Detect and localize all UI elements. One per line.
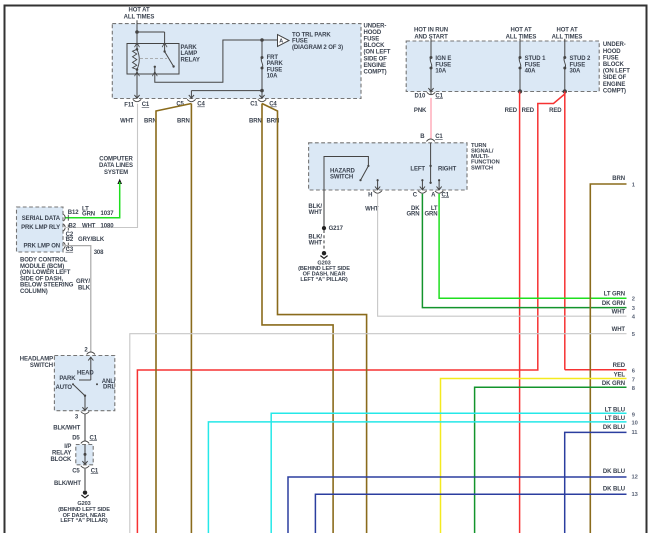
- svg-text:DK BLU: DK BLU: [603, 425, 625, 431]
- svg-text:BLK: BLK: [78, 285, 91, 291]
- wire BLK/WHT hazard to G217: [323, 190, 325, 228]
- ground G203 (headlamp circuit): [81, 490, 88, 497]
- svg-text:SWITCH: SWITCH: [330, 175, 353, 181]
- connector terminal 3: [75, 412, 89, 421]
- label RED (stud1 wire): [505, 108, 518, 114]
- svg-text:2: 2: [632, 297, 635, 303]
- connector C5 C1 (relay block out): [72, 466, 99, 475]
- svg-text:HEADLAMP: HEADLAMP: [20, 357, 53, 363]
- svg-text:SIDE OF: SIDE OF: [603, 75, 627, 81]
- svg-text:C3: C3: [66, 247, 74, 253]
- connector A C1: [431, 191, 450, 199]
- connector into relay block: [81, 441, 89, 450]
- label HEAD: [77, 371, 94, 377]
- label C2: [66, 232, 74, 238]
- svg-text:B12: B12: [68, 210, 79, 216]
- label LEFT: [410, 167, 425, 173]
- label G203 (headlamp): [58, 501, 110, 524]
- svg-text:PARK: PARK: [267, 61, 284, 67]
- hazard switch: [324, 157, 370, 191]
- label RED (stud2 right wire): [549, 108, 562, 114]
- svg-text:ALL TIMES: ALL TIMES: [124, 14, 155, 20]
- wire BRN C1 left branch stepped to bottom: [262, 104, 333, 533]
- underhood fuse block (right) box: [406, 41, 599, 92]
- svg-text:GRN: GRN: [406, 211, 419, 217]
- svg-text:DK BLU: DK BLU: [603, 487, 625, 493]
- park lamp relay box: [127, 44, 179, 75]
- label AUTO: [56, 385, 73, 391]
- svg-text:SERIAL DATA: SERIAL DATA: [22, 216, 61, 222]
- svg-text:ALL TIMES: ALL TIMES: [552, 34, 583, 40]
- relay switch: [140, 45, 175, 74]
- svg-text:STUD 2: STUD 2: [570, 56, 592, 62]
- wire GRY/BLK BCM to headlamp switch: [65, 246, 91, 352]
- svg-text:GRN: GRN: [424, 211, 437, 217]
- wire through relay block: [82, 445, 87, 465]
- label BRN wire 4: [267, 118, 280, 124]
- wire DK BLU stub 11 from bottom: [565, 432, 627, 533]
- label BODY CONTROL MODULE (BCM): [20, 258, 74, 296]
- svg-text:HOOD: HOOD: [603, 49, 621, 55]
- svg-text:FUSE: FUSE: [570, 62, 586, 68]
- label 308: [94, 250, 104, 256]
- label GRY/BLK (vertical wire): [76, 279, 91, 291]
- relay coil: [133, 45, 140, 74]
- label LT BLU stub 10: [605, 416, 638, 427]
- svg-text:FUSE: FUSE: [525, 62, 541, 68]
- svg-text:WHT: WHT: [120, 118, 134, 124]
- svg-text:BLK/: BLK/: [308, 234, 322, 240]
- svg-text:BODY CONTROL: BODY CONTROL: [20, 258, 68, 264]
- svg-text:LAMP: LAMP: [181, 51, 198, 57]
- svg-text:WHT: WHT: [365, 206, 379, 212]
- svg-text:FUSE: FUSE: [435, 62, 451, 68]
- connector H: [368, 191, 382, 199]
- I/P relay block box: [76, 445, 93, 465]
- label HOT AT ALL TIMES (stud 1): [506, 28, 537, 41]
- wire WHT stub 5 from bottom: [130, 334, 627, 533]
- svg-text:C1: C1: [91, 468, 99, 474]
- connector B C1 (turn signal top): [420, 134, 443, 147]
- wire RED stud2 to stub 6: [565, 92, 627, 370]
- label ANL/ DRL: [102, 379, 116, 391]
- svg-text:BLOCK: BLOCK: [50, 457, 72, 463]
- svg-text:HEAD: HEAD: [77, 371, 94, 377]
- svg-text:IGN E: IGN E: [435, 56, 451, 62]
- wire DK BLU stub 12 from bottom: [288, 477, 627, 533]
- frt park fuse 10A: [260, 40, 264, 92]
- label D5 C1: [72, 435, 98, 441]
- svg-text:BLK/WHT: BLK/WHT: [54, 481, 81, 487]
- svg-text:D10: D10: [414, 93, 425, 99]
- svg-text:DK GRN: DK GRN: [602, 381, 625, 387]
- svg-text:FUSE: FUSE: [364, 37, 380, 43]
- turn signal switch box: [309, 143, 467, 190]
- label HOT IN RUN AND START: [414, 28, 448, 41]
- label STUD 1 FUSE 40A: [525, 56, 547, 75]
- svg-text:C1: C1: [142, 102, 150, 108]
- svg-text:HOT AT: HOT AT: [510, 28, 531, 34]
- svg-text:ENGINE: ENGINE: [603, 82, 626, 88]
- headlamp switch HEAD contact: [79, 357, 93, 380]
- svg-text:C1: C1: [435, 134, 443, 140]
- svg-text:SIDE OF: SIDE OF: [364, 56, 388, 62]
- svg-text:RED: RED: [522, 108, 535, 114]
- svg-text:WHT: WHT: [612, 309, 626, 315]
- svg-text:GRY/BLK: GRY/BLK: [78, 237, 105, 243]
- svg-text:DK BLU: DK BLU: [603, 469, 625, 475]
- label UNDER-HOOD FUSE BLOCK (right): [603, 42, 630, 94]
- label BLK/WHT (hazard ground wire): [308, 204, 322, 216]
- svg-text:LT BLU: LT BLU: [605, 416, 625, 422]
- svg-text:WHT: WHT: [309, 210, 323, 216]
- svg-text:13: 13: [632, 492, 639, 498]
- label BRN wire 2: [177, 118, 190, 124]
- svg-text:BRN: BRN: [177, 118, 190, 124]
- label HEADLAMP SWITCH: [20, 357, 53, 370]
- wire relay switch to trailer-fuse node: [155, 38, 278, 82]
- triangle connector A to trl park fuse: [278, 35, 290, 47]
- svg-text:C5: C5: [72, 468, 80, 474]
- svg-text:WHT: WHT: [82, 224, 96, 230]
- svg-text:WHT: WHT: [612, 327, 626, 333]
- svg-text:PRK LMP ON: PRK LMP ON: [23, 244, 60, 250]
- stud 1 fuse 40A: [518, 39, 522, 94]
- wire BRN C5 straight to bottom: [190, 104, 192, 533]
- label I/P RELAY BLOCK: [50, 444, 72, 463]
- svg-text:(ON LOWER LEFT: (ON LOWER LEFT: [20, 270, 71, 276]
- svg-text:UNDER-: UNDER-: [603, 42, 626, 48]
- svg-text:BLOCK: BLOCK: [364, 43, 386, 49]
- svg-text:RELAY: RELAY: [181, 58, 200, 64]
- svg-text:FUSE: FUSE: [292, 38, 308, 44]
- svg-text:1080: 1080: [101, 224, 115, 230]
- svg-text:YEL: YEL: [614, 372, 626, 378]
- label STUD 2 FUSE 30A: [570, 56, 592, 75]
- splice G217: [322, 226, 344, 232]
- svg-text:BRN: BRN: [612, 176, 625, 182]
- label RED stub 6: [613, 363, 636, 375]
- svg-text:C1: C1: [435, 93, 443, 99]
- underhood fuse block (left) box: [112, 24, 361, 99]
- headlamp switch wiper: [72, 383, 98, 410]
- label RED (stud2 middle wire): [522, 108, 535, 114]
- relay pin marks: [135, 43, 168, 76]
- svg-text:UNDER-: UNDER-: [364, 23, 387, 29]
- wire branch to relay switch pin: [137, 32, 165, 45]
- label DK BLU stub 11: [603, 425, 638, 436]
- label TURN SIGNAL MULTI-FUNCTION SWITCH: [471, 143, 500, 171]
- wire relay coil to F11: [134, 74, 139, 98]
- svg-text:(DIAGRAM 2 OF 3): (DIAGRAM 2 OF 3): [292, 45, 343, 51]
- wire DK BLU stub 13 from bottom: [315, 494, 626, 533]
- label IGN E FUSE 10A: [435, 56, 451, 75]
- svg-text:SWITCH: SWITCH: [471, 165, 493, 171]
- wire BRN stub 1 to bottom: [590, 184, 626, 533]
- svg-text:COLUMN): COLUMN): [20, 289, 48, 295]
- svg-text:1037: 1037: [101, 211, 115, 217]
- svg-text:PARK: PARK: [59, 376, 76, 382]
- svg-text:(ON LEFT: (ON LEFT: [364, 50, 391, 56]
- svg-text:SYSTEM: SYSTEM: [104, 170, 128, 176]
- label COMPUTER DATA LINES SYSTEM: [99, 157, 133, 176]
- svg-text:C1: C1: [250, 102, 258, 108]
- label BRN stub 1: [612, 176, 636, 189]
- svg-text:SWITCH: SWITCH: [30, 363, 53, 369]
- label PARK: [59, 376, 76, 382]
- wire YEL stub 7 from bottom: [441, 379, 627, 533]
- svg-text:PNK: PNK: [414, 108, 427, 114]
- svg-text:LT BLU: LT BLU: [605, 407, 625, 413]
- label HAZARD SWITCH: [330, 168, 355, 180]
- svg-text:308: 308: [94, 250, 104, 256]
- svg-text:30A: 30A: [570, 69, 581, 75]
- label PRK LMP RLY: [21, 225, 60, 231]
- label WHT stub 4: [612, 309, 636, 320]
- svg-text:A: A: [279, 38, 283, 44]
- svg-text:H: H: [368, 192, 372, 198]
- label BLK/WHT (headlamp): [53, 425, 80, 431]
- svg-text:B2: B2: [66, 237, 74, 243]
- label BLK/WHT (below G217): [308, 234, 322, 246]
- label C3: [66, 247, 74, 253]
- label SERIAL DATA: [22, 216, 61, 222]
- wire LT GRN right turn to stub 2: [439, 194, 626, 298]
- wire BRN C5 left branch to bottom: [156, 104, 191, 533]
- label RIGHT: [438, 167, 457, 173]
- wire DK GRN left turn to stub 3: [422, 194, 626, 308]
- svg-text:I/P: I/P: [64, 444, 71, 450]
- label YEL stub 7: [614, 372, 635, 383]
- svg-text:C1: C1: [442, 192, 450, 198]
- svg-text:(ON LEFT: (ON LEFT: [603, 69, 630, 75]
- label TO TRL PARK FUSE (DIAGRAM 2 OF 3): [292, 32, 343, 51]
- label HOT AT ALL TIMES (left block): [124, 8, 155, 21]
- svg-text:DATA LINES: DATA LINES: [99, 163, 133, 169]
- svg-text:BLOCK: BLOCK: [603, 62, 625, 68]
- label HOT AT ALL TIMES (stud 2): [552, 28, 583, 41]
- svg-text:10: 10: [632, 421, 638, 427]
- ground G203 (behind left side of dash): [320, 251, 327, 258]
- svg-text:7: 7: [632, 378, 635, 384]
- label DK GRN (left turn wire): [406, 206, 420, 217]
- label WHT stub 5: [612, 327, 636, 338]
- wire LT BLU stub 9 from bottom: [271, 413, 626, 533]
- wire fuse output to C5 connector: [189, 91, 262, 99]
- wire BRN C1 right branch stepped to bottom: [262, 104, 367, 533]
- svg-text:LEFT: LEFT: [410, 167, 425, 173]
- wire BLK/WHT G217 to G203: [323, 230, 325, 250]
- svg-text:FUSE: FUSE: [603, 55, 619, 61]
- turn signal pole from B: [429, 143, 431, 184]
- svg-text:F11: F11: [124, 103, 134, 109]
- label PNK: [414, 108, 427, 114]
- ign e fuse 10A: [428, 39, 433, 95]
- svg-text:RELAY: RELAY: [52, 451, 71, 457]
- label B12 LT GRN 1037: [68, 207, 114, 218]
- wire BLK/WHT relay block to G203: [84, 469, 86, 490]
- svg-text:BRN: BRN: [249, 118, 262, 124]
- svg-text:HOT AT: HOT AT: [556, 28, 577, 34]
- label DK GRN stub 3: [602, 301, 636, 312]
- svg-text:PRK LMP RLY: PRK LMP RLY: [21, 225, 60, 231]
- svg-text:BRN: BRN: [144, 118, 157, 124]
- wire RED stud2 jog left and across to bottom left: [137, 92, 564, 533]
- svg-text:PARK: PARK: [181, 45, 198, 51]
- svg-text:SIDE OF DASH,: SIDE OF DASH,: [20, 276, 63, 282]
- label UNDER-HOOD FUSE BLOCK (left): [364, 23, 391, 75]
- connector C5 C4: [176, 99, 205, 107]
- svg-text:RED: RED: [613, 363, 626, 369]
- svg-text:ALL TIMES: ALL TIMES: [506, 34, 537, 40]
- label DK BLU stub 13: [603, 487, 639, 498]
- svg-text:G217: G217: [329, 226, 344, 232]
- svg-text:10A: 10A: [435, 69, 446, 75]
- svg-text:LEFT “A” PILLAR): LEFT “A” PILLAR): [60, 518, 107, 524]
- body control module box: [17, 207, 64, 252]
- wire PNK ign e to turn signal switch: [430, 98, 432, 139]
- svg-text:HOOD: HOOD: [364, 30, 382, 36]
- svg-text:COMPT): COMPT): [603, 88, 626, 94]
- svg-text:40A: 40A: [525, 69, 536, 75]
- label DK GRN stub 8: [602, 381, 636, 392]
- label FRT PARK FUSE 10A: [267, 55, 284, 79]
- svg-text:10A: 10A: [267, 73, 278, 79]
- svg-text:WHT: WHT: [309, 241, 323, 247]
- svg-text:HOT IN RUN: HOT IN RUN: [414, 28, 448, 34]
- wire WHT hazard to stub 4: [378, 194, 627, 316]
- wire battery feed into block: [135, 20, 139, 45]
- svg-text:DK GRN: DK GRN: [602, 301, 625, 307]
- svg-text:12: 12: [632, 475, 638, 481]
- svg-text:C4: C4: [269, 102, 277, 108]
- svg-text:RIGHT: RIGHT: [438, 167, 457, 173]
- svg-text:MODULE (BCM): MODULE (BCM): [20, 264, 64, 270]
- svg-text:HAZARD: HAZARD: [330, 168, 355, 174]
- label LT BLU stub 9: [605, 407, 636, 418]
- arrow to computer data lines: [117, 179, 122, 184]
- headlamp switch box: [54, 356, 114, 411]
- label BRN wire 1: [144, 118, 157, 124]
- wire fuse output to C1 connector: [259, 91, 264, 99]
- svg-text:C1: C1: [90, 435, 98, 441]
- svg-text:B2: B2: [69, 224, 77, 230]
- label LT GRN (right turn wire): [424, 206, 437, 217]
- hazard switch H terminal: [375, 179, 380, 190]
- label B2 WHT 1080: [69, 224, 115, 230]
- svg-text:BLK/WHT: BLK/WHT: [53, 425, 80, 431]
- label BLK/WHT (to ground): [54, 481, 81, 487]
- label PARK LAMP RELAY: [181, 45, 200, 64]
- svg-text:GRY/: GRY/: [76, 279, 90, 285]
- connector C1 C4 (left block): [250, 99, 277, 107]
- label G203 (hazard): [298, 260, 350, 283]
- svg-text:STUD 1: STUD 1: [525, 56, 547, 62]
- svg-text:COMPUTER: COMPUTER: [99, 157, 133, 163]
- svg-text:RED: RED: [549, 108, 562, 114]
- svg-text:BELOW STEERING: BELOW STEERING: [20, 283, 74, 289]
- label terminal 2: [84, 347, 88, 353]
- svg-text:DRL: DRL: [103, 385, 115, 391]
- wire LT BLU stub 10 from bottom: [208, 422, 626, 533]
- connector D10 C1: [414, 92, 443, 99]
- svg-text:C4: C4: [197, 102, 205, 108]
- wire DK GRN stub 8 from bottom: [475, 387, 627, 533]
- svg-text:LEFT “A” PILLAR): LEFT “A” PILLAR): [300, 277, 347, 283]
- connector headlamp terminal 2: [87, 352, 95, 354]
- svg-text:HOT AT: HOT AT: [128, 8, 149, 14]
- left turn contact to C: [420, 179, 425, 190]
- wire LT GRN serial data: [65, 182, 120, 218]
- svg-text:D5: D5: [72, 435, 80, 441]
- wire WHT 1080 BCM to F11: [65, 104, 138, 228]
- svg-text:GRN: GRN: [82, 211, 95, 217]
- label WHT (F11 wire): [120, 118, 134, 124]
- wire BLK/WHT headlamp to relay block: [84, 414, 86, 442]
- svg-text:11: 11: [632, 430, 639, 436]
- label B2 GRY/BLK: [66, 237, 105, 243]
- label DK BLU stub 12: [603, 469, 638, 481]
- label BRN wire 3: [249, 118, 262, 124]
- label PRK LMP ON: [23, 244, 60, 250]
- right turn contact to A: [437, 179, 442, 190]
- svg-text:AUTO: AUTO: [56, 385, 73, 391]
- label LT GRN stub 2: [604, 291, 635, 302]
- label WHT (hazard wire): [365, 206, 379, 212]
- BCM connector marks: [64, 214, 69, 249]
- connector C: [413, 191, 427, 199]
- stud 2 fuse 30A: [563, 39, 567, 94]
- svg-text:RED: RED: [505, 108, 518, 114]
- svg-text:COMPT): COMPT): [364, 70, 387, 76]
- connector F11 C1: [124, 99, 150, 108]
- wire RED stud1 down to bottom: [519, 92, 521, 533]
- svg-text:LT GRN: LT GRN: [604, 291, 625, 297]
- svg-text:ENGINE: ENGINE: [364, 63, 387, 69]
